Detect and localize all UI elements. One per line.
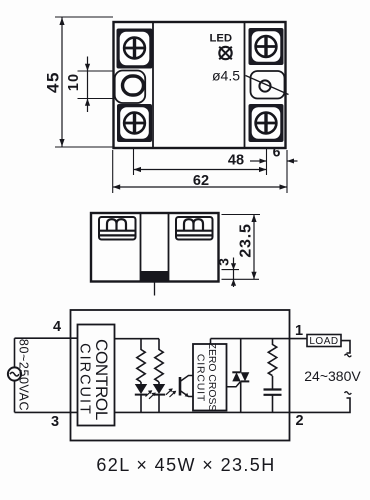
resistor R2 [155,339,163,382]
light emission arrows D2 [166,388,176,397]
extension line from BR screw [266,148,268,175]
svg-text:1: 1 [295,323,303,339]
svg-text:ø4.5: ø4.5 [212,68,240,84]
svg-text:80~250VAC: 80~250VAC [17,339,31,411]
svg-text:CONTROL: CONTROL [92,339,111,420]
dimension 23.5 [222,215,261,280]
svg-text:LOAD: LOAD [309,336,338,347]
svg-text:CIRCUIT: CIRCUIT [195,354,207,402]
LED D1 [135,382,147,412]
LED indicator symbol [219,47,232,60]
svg-text:24~380V: 24~380V [304,368,361,384]
svg-text:62L × 45W × 23.5H: 62L × 45W × 23.5H [96,455,275,475]
terminal 1 label [295,323,303,339]
value label 24~380V [304,368,361,384]
svg-text:ZERO CROSS: ZERO CROSS [206,343,217,412]
light emission arrows D1 [146,390,156,399]
wire terminal 1 [290,338,308,340]
terminal 3 label [51,414,59,430]
svg-text:CIRCUIT: CIRCUIT [77,343,93,416]
LED label [209,32,232,44]
zero cross circuit block U2 [193,343,227,412]
svg-text:2: 2 [295,413,303,429]
left wire-entry cover [115,71,146,104]
left terminal clip [99,217,136,240]
screw terminal BL [117,104,152,142]
AC input source V1 [8,367,21,380]
svg-text:45: 45 [44,71,63,93]
left obround slot [123,76,144,95]
svg-text:48: 48 [228,153,244,169]
dimension 45 [44,17,114,147]
extension line from BL screw [133,149,135,175]
screw terminal BR [249,104,284,142]
center cover left edge [152,23,154,147]
right round hole ø4.5 [259,80,270,91]
right block inner edge [168,214,170,282]
svg-text:23.5: 23.5 [238,223,255,257]
wire AC source vertical [14,338,16,412]
AC line terminal bottom tilde [345,392,352,395]
wire terminal 4 [15,337,78,339]
center cover right edge [244,23,246,147]
center line below base [154,282,156,296]
capacitor C1 snubber [264,390,282,413]
extension line body left [112,150,114,193]
left block inner edge [140,214,142,282]
resistor R1 [137,339,145,382]
load box [307,335,341,348]
screw terminal TL [117,29,153,69]
wire control to LED branches (top) [115,338,160,340]
wire zero cross to top rail [210,339,212,344]
svg-text:6: 6 [273,144,281,160]
dimension 6 [250,144,298,164]
resistor R3 snubber [268,339,276,389]
caption 62L x 45W x 23.5H [96,455,275,475]
SSR enclosure box [71,310,290,441]
triac Q2 [232,339,249,413]
side view body outline [91,213,219,282]
terminal 2 label [295,413,303,429]
extension line body right [286,150,288,193]
dimension 48 [134,153,267,173]
LED D2 [153,382,165,412]
wire load to AC line top [341,341,350,353]
svg-text:3: 3 [51,414,59,430]
wire terminal 2 [290,398,351,412]
phototransistor Q1 [180,376,193,398]
svg-text:4: 4 [53,319,61,335]
control circuit block U1 [77,325,115,426]
terminal 4 label [53,319,61,335]
right terminal clip [176,217,213,240]
AC line terminal top tilde [345,354,352,357]
right wire-entry cover [251,71,285,99]
dimension 3 [216,258,260,288]
value label ø4.5 [212,68,240,84]
wire top rail right [211,338,290,340]
leader line from ø4.5 label to hole [246,76,289,95]
black base block [141,271,169,281]
value label 80~250VAC [17,339,31,411]
svg-text:LED: LED [209,32,232,44]
wire gate drive [227,382,241,387]
svg-text:62: 62 [193,173,209,189]
svg-text:10: 10 [66,73,82,91]
screw terminal TR [249,28,284,65]
svg-text:3: 3 [216,258,232,266]
wire bottom rail [115,411,290,413]
relay body outline [114,22,286,148]
wire terminal 3 [15,411,78,413]
dimension 62 [113,173,287,190]
dimension 10 [66,57,114,113]
